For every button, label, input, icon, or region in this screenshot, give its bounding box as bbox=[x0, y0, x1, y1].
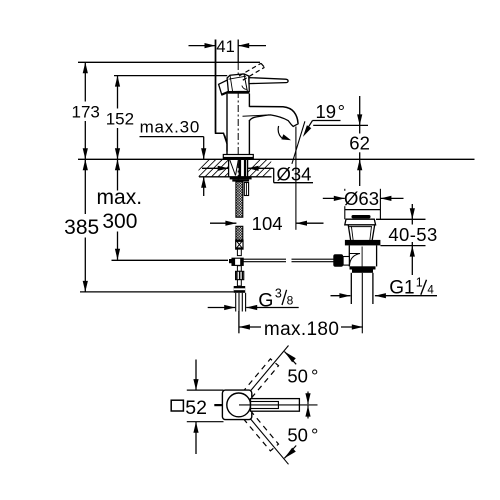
faucet: spout bbox=[249, 107, 298, 124]
dim 40-53 bbox=[376, 204, 438, 275]
node: hose end reference line (385 bottom) bbox=[80, 291, 234, 293]
label G1 1/4 with arrow bbox=[331, 275, 438, 298]
dim 52 arrows bbox=[195, 360, 197, 391]
top view: angle ray lower bbox=[246, 414, 288, 464]
svg-text:1: 1 bbox=[416, 275, 423, 289]
wire: pop-up rod horizontal link right (double line) bbox=[243, 258, 286, 260]
faucet: lever bar bbox=[249, 78, 288, 84]
water stream vertical reference bbox=[295, 127, 297, 230]
top view: rear rod stub bbox=[214, 404, 222, 406]
drain valve: bottom rings bbox=[350, 266, 376, 269]
svg-text:G1: G1 bbox=[389, 277, 414, 298]
countertop hatching left bbox=[192, 159, 242, 177]
label 19 degrees with leader bbox=[303, 101, 368, 137]
dim diameter 34 with leader bbox=[202, 163, 313, 184]
svg-text:4: 4 bbox=[427, 285, 434, 297]
top view: 52 dim extension lines bbox=[187, 389, 224, 391]
faucet: connection ribbed block bbox=[236, 271, 244, 279]
top view: centerline bbox=[239, 404, 318, 406]
faucet: pop-up rod behind body bbox=[216, 40, 228, 144]
faucet: T-junction of pop-up linkage bbox=[232, 258, 243, 265]
angle arrows at rays bbox=[284, 352, 296, 365]
svg-text:max.: max. bbox=[97, 186, 143, 209]
svg-text:3: 3 bbox=[275, 287, 282, 301]
top view: dashed handle rotated up 50 bbox=[242, 359, 278, 399]
drain valve: body bbox=[348, 245, 350, 266]
dim max.30 bbox=[140, 118, 207, 196]
svg-text:104: 104 bbox=[252, 213, 283, 234]
drain valve: rubber seal ring bbox=[345, 240, 381, 246]
faucet: lever front flap bbox=[219, 80, 231, 95]
drain valve: tailpipe bbox=[350, 273, 352, 304]
faucet: G3/8 nut bbox=[234, 286, 246, 293]
drain valve: plug knob bbox=[352, 215, 371, 218]
dim diameter 63 bbox=[323, 188, 404, 219]
faucet: body column bbox=[227, 94, 249, 155]
faucet: pop-up rod lower guide bbox=[244, 183, 248, 196]
faucet: rod stem upper bbox=[237, 249, 241, 256]
top view: dashed handle rotated down 50 bbox=[242, 411, 278, 451]
dim 62 bbox=[349, 96, 370, 186]
svg-text:max.180: max.180 bbox=[264, 319, 339, 340]
svg-text:19°: 19° bbox=[316, 101, 346, 122]
dim max.300 bbox=[97, 159, 143, 259]
dim max.180 bbox=[239, 247, 363, 341]
top view: cartridge circle bbox=[227, 393, 251, 417]
svg-text:50°: 50° bbox=[287, 424, 318, 445]
dim 173 bbox=[72, 62, 100, 159]
svg-text:Ø63: Ø63 bbox=[344, 188, 379, 209]
drain valve: side knob bbox=[343, 257, 349, 266]
top view: handle inner detail bbox=[251, 402, 279, 409]
label G 3/8 with arrows bbox=[208, 287, 299, 312]
faucet: rod stem lower bbox=[237, 266, 241, 272]
wire: pop-up rod horizontal link left / max.300 bottom ref bbox=[112, 259, 229, 261]
countertop hatching right bbox=[243, 159, 280, 177]
top view: angle ray upper bbox=[246, 346, 288, 396]
svg-text:173: 173 bbox=[72, 103, 100, 122]
svg-text:40-53: 40-53 bbox=[388, 224, 437, 245]
svg-text:385: 385 bbox=[64, 216, 99, 239]
svg-text:152: 152 bbox=[106, 109, 134, 128]
faucet: center axis dashed bbox=[237, 63, 239, 181]
faucet: connection neck bbox=[237, 280, 241, 286]
top view: handle bar bbox=[251, 399, 300, 412]
svg-text:300: 300 bbox=[102, 210, 137, 233]
svg-text:41: 41 bbox=[216, 38, 234, 56]
faucet: hose end fitting bbox=[236, 240, 243, 249]
faucet: cap-body joint band bbox=[228, 91, 250, 93]
dim 152 bbox=[106, 76, 134, 160]
faucet: flexible hose upper bbox=[236, 182, 243, 218]
dim 41 bbox=[189, 38, 267, 132]
svg-text:62: 62 bbox=[349, 132, 370, 153]
faucet: cartridge cap bbox=[227, 74, 249, 92]
dim 104 bbox=[210, 213, 324, 234]
drain valve: flange lip bbox=[345, 219, 376, 225]
angle arrows at centerline bbox=[307, 392, 309, 405]
water stream 19 degree line bbox=[292, 121, 305, 164]
faucet: mounting shank bbox=[229, 159, 248, 177]
svg-text:G: G bbox=[258, 290, 273, 312]
node: countertop top surface line bbox=[78, 158, 475, 160]
node: countertop bottom surface line bbox=[199, 176, 272, 178]
top view: square body bbox=[222, 390, 251, 420]
stream angle arc arrow bbox=[278, 126, 291, 140]
svg-text:Ø34: Ø34 bbox=[277, 163, 312, 184]
svg-text:50°: 50° bbox=[287, 366, 318, 387]
svg-text:52: 52 bbox=[185, 397, 207, 419]
faucet: raised lever position (dashed) bbox=[239, 63, 265, 80]
faucet: flexible hose lower bbox=[236, 226, 243, 240]
svg-text:8: 8 bbox=[287, 294, 294, 308]
faucet: mounting nut under counter bbox=[230, 177, 252, 180]
faucet: supply pipes bbox=[236, 293, 246, 312]
faucet: base plate bbox=[223, 155, 253, 160]
svg-text:max.30: max.30 bbox=[140, 118, 201, 137]
drain valve: flange body bbox=[348, 225, 351, 242]
node: reference line top of lever (173 top) bbox=[78, 61, 260, 63]
label square 52 bbox=[171, 400, 183, 411]
dim 385 bbox=[64, 159, 99, 292]
node: reference line top of handle cap (152 top) bbox=[114, 75, 227, 77]
